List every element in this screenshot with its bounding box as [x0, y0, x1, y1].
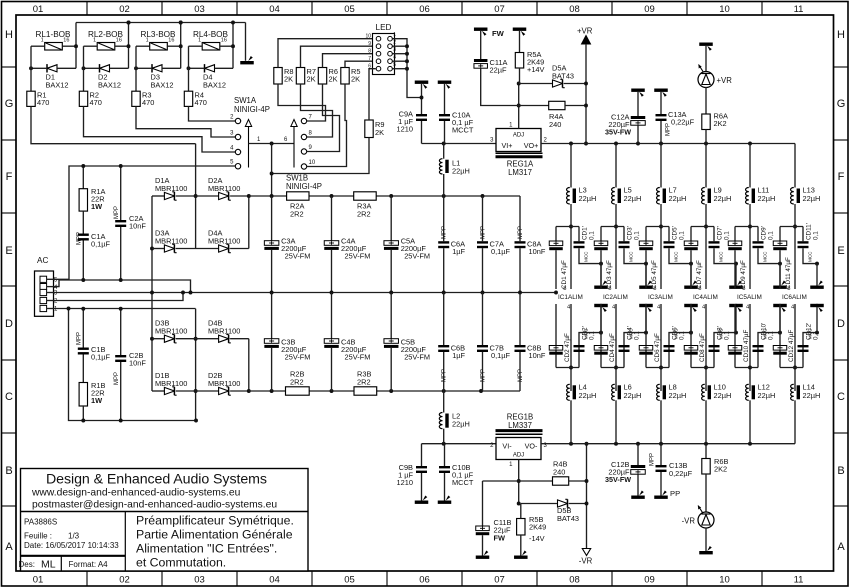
ground relay bus [240, 61, 254, 64]
svg-text:0,22µF: 0,22µF [671, 118, 695, 127]
wire IC4ALIM top column [705, 204, 707, 289]
svg-text:G: G [837, 98, 846, 110]
svg-text:et Commutation.: et Commutation. [136, 556, 226, 570]
svg-text:2R2: 2R2 [357, 378, 371, 387]
svg-text:IC5ALIM: IC5ALIM [737, 294, 762, 301]
svg-text:Préamplificateur Symétrique.: Préamplificateur Symétrique. [136, 514, 294, 528]
capacitor C4A 2200uF 25V-FM [331, 196, 333, 241]
diode D4 BAX12 [205, 65, 215, 72]
svg-text:D: D [837, 318, 845, 330]
ground IC5 bottom [778, 331, 782, 335]
svg-text:03: 03 [194, 575, 205, 586]
svg-text:22µH: 22µH [714, 194, 732, 203]
svg-text:8: 8 [653, 286, 656, 292]
ground IC3 top [689, 262, 693, 266]
svg-text:G: G [5, 98, 14, 110]
svg-text:CD5 47µF: CD5 47µF [651, 260, 658, 289]
wire SW pole node down [271, 144, 273, 174]
svg-text:9: 9 [368, 41, 371, 47]
svg-text:06: 06 [419, 575, 430, 586]
wire +raw rail [249, 195, 287, 197]
inductor L11 22uH [749, 144, 751, 188]
svg-text:CD10 47µF: CD10 47µF [743, 330, 750, 362]
connector LED [373, 34, 395, 75]
wire relay supply bus [76, 22, 246, 24]
inductor L9 22uH [705, 144, 707, 188]
svg-text:MCC: MCC [808, 251, 813, 262]
svg-text:16: 16 [221, 38, 227, 44]
svg-text:CD8 47µF: CD8 47µF [699, 333, 706, 362]
resistor R2A 2R2 [287, 192, 309, 200]
svg-text:2K: 2K [329, 75, 338, 84]
svg-text:+VR: +VR [577, 27, 593, 36]
wire R3 to SW1A contact 3 [136, 106, 235, 137]
capacitor CD4 47uF [600, 304, 602, 368]
svg-text:240: 240 [553, 468, 565, 477]
svg-text:05: 05 [344, 575, 355, 586]
svg-text:8: 8 [698, 286, 701, 292]
svg-text:C: C [837, 391, 845, 403]
svg-text:2R2: 2R2 [290, 378, 304, 387]
svg-text:09: 09 [644, 4, 655, 15]
capacitor C7B 0,1µF MPP [482, 293, 484, 346]
wire IC2ALIM bottom column [615, 304, 617, 391]
svg-text:8: 8 [368, 49, 371, 55]
capacitor C5B 2200uF 25V-FM [390, 293, 392, 339]
svg-text:0,1: 0,1 [768, 231, 775, 240]
svg-text:BAX12: BAX12 [203, 81, 226, 90]
resistor R1A 22R 1W [82, 166, 84, 189]
svg-text:MBR1100: MBR1100 [155, 184, 187, 193]
capacitor CD11&#39; 0.1 MCC [802, 227, 804, 242]
svg-text:www.design-and-enhanced-audio-: www.design-and-enhanced-audio-systems.eu [31, 488, 241, 499]
svg-text:CD12 47µF: CD12 47µF [788, 330, 795, 362]
svg-text:1: 1 [93, 38, 96, 44]
wire R7 bottom to SW1B contact [301, 84, 333, 137]
svg-text:25V-FM: 25V-FM [404, 353, 430, 362]
wire R4 to SW1A contact 2 [189, 106, 236, 121]
wire RL3 right lead / top bus drop [167, 45, 180, 47]
capacitor CD9 47uF [734, 227, 736, 242]
svg-text:+14V: +14V [527, 65, 545, 74]
svg-text:Alimentation "IC Entrées".: Alimentation "IC Entrées". [136, 542, 277, 556]
diode D3 BAX12 [152, 65, 162, 72]
wire R9 bottom to node [272, 138, 369, 197]
svg-text:IC1ALIM: IC1ALIM [558, 294, 583, 301]
wire REG1A input rail [422, 143, 497, 145]
capacitor CD8&#39; 0.1 MCC [713, 345, 715, 368]
svg-text:MCC: MCC [763, 328, 768, 339]
wire AC pin4 rail [54, 280, 191, 293]
svg-text:BAX12: BAX12 [151, 81, 174, 90]
svg-text:MPP: MPP [518, 369, 524, 382]
wire ADJ-B row [483, 480, 553, 482]
svg-text:H: H [5, 29, 13, 41]
wire AC pin1 rail B [54, 308, 196, 310]
svg-text:ADJ: ADJ [513, 453, 524, 459]
wire R1 to bridge A mid node [31, 106, 196, 143]
svg-text:1210: 1210 [397, 478, 413, 487]
svg-text:LM317: LM317 [508, 168, 532, 177]
svg-text:VI-: VI- [502, 442, 512, 451]
wire IC4ALIM bottom column [705, 304, 707, 391]
svg-text:35V-FW: 35V-FW [605, 128, 631, 137]
svg-text:22µH: 22µH [758, 391, 776, 400]
wire AC pin5 to SW1A contact 5 [54, 166, 236, 279]
svg-text:2K: 2K [307, 75, 316, 84]
inductor L4 22uH [567, 384, 570, 400]
LED -VR indicator [705, 474, 707, 513]
capacitor C1B 0.1uF MPP [82, 309, 84, 348]
inductor L7 22uH [660, 144, 662, 188]
svg-text:8: 8 [787, 286, 790, 292]
svg-text:A: A [5, 541, 13, 553]
svg-text:Date: 16/05/2017 10:14:33: Date: 16/05/2017 10:14:33 [24, 541, 119, 550]
svg-text:0,1: 0,1 [813, 231, 820, 240]
svg-text:MPP: MPP [442, 226, 448, 239]
wire AC pin3 0V rail [54, 292, 557, 294]
svg-text:1W: 1W [91, 396, 102, 405]
wire -V distribution rail [541, 443, 795, 445]
inductor L3 22uH [570, 144, 572, 188]
wire IC5ALIM top column [749, 204, 751, 289]
wire REG1A ADJ node [518, 84, 520, 129]
svg-text:MCCT: MCCT [452, 478, 474, 487]
svg-text:MPP: MPP [481, 226, 487, 239]
svg-text:22µH: 22µH [452, 167, 470, 176]
svg-text:MBR1100: MBR1100 [208, 184, 240, 193]
ground IC5 top [778, 262, 782, 266]
svg-text:Des:: Des: [19, 560, 35, 569]
svg-text:1/3: 1/3 [68, 532, 80, 541]
svg-text:0,1µF: 0,1µF [491, 351, 511, 360]
svg-text:03: 03 [194, 4, 205, 15]
svg-text:8: 8 [563, 286, 566, 292]
svg-text:NINIGI-4P: NINIGI-4P [286, 182, 322, 191]
svg-text:MBR1100: MBR1100 [208, 237, 240, 246]
svg-text:A: A [837, 541, 845, 553]
svg-text:MCC: MCC [719, 251, 724, 262]
svg-text:MCC: MCC [674, 328, 679, 339]
svg-text:22µH: 22µH [714, 391, 732, 400]
svg-text:07: 07 [494, 4, 505, 15]
svg-text:Format: A4: Format: A4 [69, 560, 109, 569]
resistor R4B 240 [553, 477, 569, 485]
wire IC1ALIM top column [570, 204, 572, 289]
svg-text:MPP: MPP [518, 226, 524, 239]
capacitor C6A 1µF MPP [443, 196, 445, 241]
svg-text:IC4ALIM: IC4ALIM [693, 294, 718, 301]
svg-text:CD11': CD11' [806, 223, 813, 240]
svg-text:11: 11 [794, 575, 804, 586]
capacitor C7A 0,1µF MPP [482, 196, 484, 241]
svg-text:2R2: 2R2 [357, 210, 371, 219]
svg-text:2K2: 2K2 [714, 465, 727, 474]
ground IC2 top [644, 262, 648, 266]
inductor L10 22uH [702, 384, 705, 400]
svg-text:0,1µF: 0,1µF [491, 247, 511, 256]
wire R9 top to LED pin 6 [369, 69, 376, 120]
svg-text:MBR1100: MBR1100 [155, 379, 187, 388]
capacitor C11A 22uF FW [474, 28, 488, 31]
ground IC6 top [815, 262, 819, 266]
svg-text:25V-FM: 25V-FM [345, 353, 371, 362]
svg-text:D: D [5, 318, 13, 330]
ground IC6 bottom [815, 331, 819, 335]
svg-text:470: 470 [37, 98, 49, 107]
svg-text:10nF: 10nF [129, 222, 146, 231]
svg-text:H: H [837, 29, 845, 41]
svg-text:MBR1100: MBR1100 [155, 327, 187, 336]
svg-text:LED: LED [376, 23, 392, 32]
svg-text:25V-FM: 25V-FM [345, 252, 371, 261]
resistor R2B 2R2 [286, 387, 310, 395]
svg-text:10nF: 10nF [529, 247, 546, 256]
inductor L2 22uH [443, 391, 445, 413]
capacitor C12B 220uF 35V-FW [637, 444, 639, 465]
capacitor C10A 0.1uF MCCT [438, 81, 452, 84]
svg-text:MCC: MCC [629, 251, 634, 262]
resistor R7 2K [296, 68, 304, 85]
svg-text:CD4 47µF: CD4 47µF [609, 333, 616, 362]
svg-text:22µH: 22µH [579, 194, 597, 203]
svg-text:35V-FW: 35V-FW [605, 475, 631, 484]
wire bridge B right column [248, 339, 250, 391]
resistor R8 2K [274, 68, 282, 85]
svg-text:MCC: MCC [584, 251, 589, 262]
wire RL4 right lead / top bus drop [220, 45, 233, 47]
wire D3 row [136, 67, 152, 69]
svg-text:3: 3 [393, 47, 396, 53]
capacitor CD7 47uF [690, 227, 692, 242]
resistor R1B 22R 1W [82, 355, 84, 383]
capacitor CD10 47uF [734, 304, 736, 368]
capacitor CD8 47uF [690, 304, 692, 368]
wire LED pins to C9A node [392, 39, 421, 98]
svg-text:10: 10 [365, 34, 371, 40]
wire 0V rail end [554, 291, 558, 295]
wire R8 top to LED pin [278, 39, 376, 68]
svg-text:MPP: MPP [77, 232, 83, 245]
wire bridge B mid column [195, 309, 197, 421]
svg-text:01: 01 [33, 575, 44, 586]
svg-text:MPP: MPP [114, 372, 120, 385]
svg-text:BAX12: BAX12 [46, 81, 69, 90]
resistor R6A 2K2 [705, 87, 707, 114]
ground IC1 bottom [599, 331, 603, 335]
capacitor CD7&#39; 0.1 MCC [713, 227, 715, 242]
capacitor C11B 22uF FW [482, 481, 484, 526]
svg-text:MPP: MPP [650, 453, 656, 466]
capacitor C9B 1uF 1210 [421, 444, 423, 466]
relay RL4-BOB [202, 43, 220, 51]
ground IC1 top [599, 262, 603, 266]
svg-text:02: 02 [119, 4, 130, 15]
svg-text:ML: ML [41, 558, 56, 570]
capacitor CD3&#39; 0.1 MCC [623, 227, 625, 242]
resistor R3A 2R2 [354, 192, 377, 200]
ground IC4 bottom [734, 331, 738, 335]
svg-text:0,22µF: 0,22µF [669, 469, 693, 478]
resistor R5A 2K49 [513, 28, 527, 31]
svg-text:LM337: LM337 [508, 421, 532, 430]
svg-text:25V-FM: 25V-FM [285, 353, 311, 362]
capacitor C8A 10nF MPP [519, 196, 521, 241]
wire bridge A right column [248, 196, 250, 249]
inductor L6 22uH [612, 384, 615, 400]
svg-text:240: 240 [549, 120, 561, 129]
svg-text:F: F [6, 171, 13, 183]
svg-text:4: 4 [393, 54, 396, 60]
capacitor CD5 47uF [645, 227, 647, 242]
svg-text:2K: 2K [375, 128, 384, 137]
resistor R2 470 [79, 91, 87, 106]
svg-text:22µH: 22µH [669, 194, 687, 203]
svg-text:1210: 1210 [397, 125, 413, 134]
capacitor C3B 2200uF 25V-FM [271, 293, 273, 339]
svg-text:CD1': CD1' [582, 226, 589, 240]
wire IC6ALIM bottom column [794, 304, 796, 391]
wire C8A corner [519, 195, 521, 197]
wire RL1 right lead / top bus drop [62, 45, 76, 47]
wire IC1ALIM bottom column [570, 304, 572, 391]
capacitor CD1&#39; 0.1 MCC [578, 227, 580, 242]
capacitor CD9&#39; 0.1 MCC [757, 227, 759, 242]
svg-text:5: 5 [393, 62, 396, 68]
relay RL3-BOB [150, 43, 168, 51]
wire RL2 left lead [84, 45, 98, 47]
resistor R3B 2R2 [354, 387, 377, 395]
svg-text:22µH: 22µH [669, 391, 687, 400]
svg-text:SW1A: SW1A [234, 96, 257, 105]
svg-text:1µF: 1µF [452, 247, 465, 256]
svg-text:PP: PP [670, 489, 680, 498]
capacitor CD12 47uF [779, 304, 781, 368]
wire REG1B input rail [422, 443, 497, 445]
power flag -VR [582, 549, 590, 556]
capacitor C2A 10nF MPP [120, 166, 122, 220]
wire IC3ALIM top column [660, 204, 662, 289]
wire IC3ALIM bottom column [660, 304, 662, 391]
wire rail B lower [69, 309, 197, 421]
svg-text:10: 10 [309, 160, 316, 166]
inductor L8 22uH [657, 384, 660, 400]
capacitor CD2 47uF [555, 304, 557, 368]
svg-text:1W: 1W [91, 202, 102, 211]
capacitor C12A 220uF 35V-FW [631, 89, 645, 92]
svg-text:2: 2 [393, 39, 396, 45]
resistor R1 470 [27, 91, 35, 106]
svg-text:E: E [837, 245, 844, 257]
wire R2 to SW1A contact 4 [84, 106, 236, 152]
wire RL3 left lead [136, 45, 150, 47]
svg-text:MCC: MCC [763, 251, 768, 262]
svg-text:IC3ALIM: IC3ALIM [648, 294, 673, 301]
svg-text:-VR: -VR [579, 557, 593, 566]
svg-text:MBR1100: MBR1100 [208, 327, 240, 336]
svg-text:0,1: 0,1 [589, 231, 596, 240]
resistor R9 2K [365, 120, 373, 138]
capacitor C10B 0.1uF MCCT [444, 444, 446, 466]
svg-text:10nF: 10nF [129, 359, 146, 368]
svg-text:1: 1 [393, 32, 396, 38]
svg-text:0,1µF: 0,1µF [91, 240, 111, 249]
svg-text:470: 470 [142, 98, 154, 107]
svg-text:09: 09 [644, 575, 655, 586]
capacitor CD5&#39; 0.1 MCC [668, 227, 670, 242]
svg-text:0,1: 0,1 [679, 231, 686, 240]
svg-text:0,1: 0,1 [724, 231, 731, 240]
LED +VR indicator [699, 43, 713, 46]
svg-text:16: 16 [168, 38, 174, 44]
resistor R5 2K [341, 68, 349, 85]
inductor L1 22uH [443, 144, 445, 159]
wire REG1B ADJ node [518, 460, 520, 504]
svg-text:MCC: MCC [584, 328, 589, 339]
svg-text:1: 1 [146, 38, 149, 44]
wire R5 top to LED pin [345, 61, 376, 67]
svg-text:E: E [5, 245, 12, 257]
svg-text:CD9 47µF: CD9 47µF [740, 260, 747, 289]
svg-text:8: 8 [742, 286, 745, 292]
svg-text:16: 16 [63, 38, 69, 44]
svg-text:MPP: MPP [114, 206, 120, 219]
capacitor C13A 0.22uF [654, 89, 668, 92]
svg-text:NINIGI-4P: NINIGI-4P [234, 105, 270, 114]
resistor R4A 240 [519, 105, 549, 107]
capacitor C1A 0.1uF MPP [82, 211, 84, 233]
svg-text:MCCT: MCCT [452, 126, 474, 135]
svg-text:10nF: 10nF [529, 351, 546, 360]
svg-text:MCC: MCC [674, 251, 679, 262]
resistor R3 470 [132, 91, 140, 106]
svg-text:2K: 2K [351, 75, 360, 84]
wire SW1A pole to SW1B pole (nets 1,6) [249, 143, 295, 145]
diode D1 BAX12 [47, 65, 57, 72]
capacitor CD6 47uF [645, 304, 647, 368]
resistor R6 2K [318, 68, 326, 85]
wire IC5ALIM bottom column [749, 304, 751, 391]
svg-text:22µH: 22µH [624, 194, 642, 203]
svg-text:VI+: VI+ [502, 141, 513, 150]
regulator REG1A LM317 [496, 129, 541, 152]
svg-text:2K: 2K [284, 75, 293, 84]
inductor L5 22uH [615, 144, 617, 188]
svg-text:MBR1100: MBR1100 [208, 379, 240, 388]
resistor R4 470 [184, 91, 192, 106]
svg-text:22µH: 22µH [452, 420, 470, 429]
svg-text:2K49: 2K49 [529, 523, 546, 532]
svg-text:-VR: -VR [682, 517, 696, 526]
diode D2 BAX12 [100, 65, 110, 72]
wire -VR column [586, 444, 588, 549]
wire R5 bottom to SW1B contact [307, 84, 347, 167]
capacitor C6B 1µF MPP [443, 293, 445, 346]
svg-text:CD7 47µF: CD7 47µF [696, 260, 703, 289]
svg-text:25V-FM: 25V-FM [285, 252, 311, 261]
svg-text:MPP: MPP [442, 369, 448, 382]
wire relay column 2 [83, 46, 85, 91]
svg-text:1: 1 [198, 38, 201, 44]
relay RL2-BOB [97, 43, 115, 51]
svg-text:FW: FW [492, 29, 505, 38]
svg-text:IC6ALIM: IC6ALIM [782, 294, 807, 301]
ground IC2 bottom [644, 331, 648, 335]
svg-text:MBR1100: MBR1100 [155, 237, 187, 246]
svg-text:0,1: 0,1 [634, 231, 641, 240]
svg-text:8: 8 [608, 286, 611, 292]
resistor R5B 2K49 [517, 519, 525, 536]
